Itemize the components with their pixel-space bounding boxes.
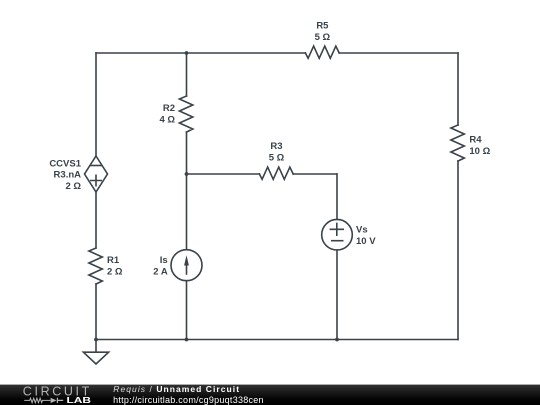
svg-text:R1: R1: [107, 255, 120, 266]
wire Is branch lower: [186, 281, 188, 340]
svg-text:Is: Is: [160, 255, 168, 266]
svg-text:Vs: Vs: [356, 224, 368, 235]
wire right vertical lower: [457, 161, 459, 340]
wire left vertical middle: [95, 192, 97, 248]
wire R3 left: [187, 173, 260, 175]
resistor R1: [89, 248, 102, 284]
current source Is: [171, 250, 202, 281]
Vs minus sign: [332, 240, 343, 242]
svg-text:LAB: LAB: [67, 396, 92, 405]
junction mid R2-R3: [185, 172, 189, 176]
svg-text:4 Ω: 4 Ω: [159, 115, 175, 126]
svg-text:10 V: 10 V: [356, 236, 376, 247]
svg-text:CCVS1: CCVS1: [49, 159, 81, 170]
svg-text:5 Ω: 5 Ω: [315, 32, 331, 43]
svg-text:10 Ω: 10 Ω: [469, 146, 490, 157]
footer bar: [0, 385, 540, 405]
svg-text:R5: R5: [316, 21, 329, 32]
svg-text:R4: R4: [469, 135, 482, 146]
svg-text:2 Ω: 2 Ω: [107, 267, 123, 278]
svg-text:http://circuitlab.com/cg9puqt3: http://circuitlab.com/cg9puqt338cen: [113, 395, 264, 405]
ground: [83, 352, 108, 364]
Is arrow: [184, 255, 189, 274]
logo zigzag wire: [24, 398, 50, 402]
wire top-right horizontal: [339, 52, 458, 54]
CCVS1 plus sign: [91, 175, 101, 185]
junction top R2: [185, 51, 189, 55]
svg-text:Requis / Unnamed Circuit: Requis / Unnamed Circuit: [113, 384, 240, 394]
svg-text:2 Ω: 2 Ω: [65, 181, 81, 192]
wire Is branch upper: [186, 174, 188, 250]
junction bottom left: [94, 338, 98, 342]
resistor R5: [305, 46, 339, 58]
svg-text:R2: R2: [163, 103, 175, 114]
wire R2 branch upper: [186, 53, 188, 96]
wire left vertical upper: [95, 53, 97, 156]
svg-text:R3.nA: R3.nA: [54, 170, 82, 181]
wire R2 branch lower: [186, 132, 188, 174]
CCVS CCVS1: [85, 156, 108, 192]
wire right vertical upper: [457, 53, 459, 125]
wire Vs branch upper: [336, 174, 338, 219]
voltage source Vs: [322, 219, 353, 250]
wire top-left horizontal: [96, 52, 305, 54]
wire Vs branch lower: [336, 250, 338, 340]
wire left vertical lower: [95, 284, 97, 340]
Vs plus sign: [330, 223, 343, 235]
resistor R3: [259, 167, 293, 179]
CCVS1 minus sign: [91, 165, 101, 167]
resistor R4: [451, 125, 464, 161]
svg-text:R3: R3: [270, 141, 282, 152]
svg-text:2 A: 2 A: [153, 267, 168, 278]
logo diode: [51, 398, 64, 403]
wire ground stub: [95, 340, 97, 353]
resistor R2: [179, 96, 192, 132]
wire R3 right: [293, 173, 337, 175]
junction bottom Vs: [335, 338, 339, 342]
svg-text:5 Ω: 5 Ω: [269, 153, 285, 164]
wire bottom horizontal: [96, 339, 458, 341]
junction bottom Is: [185, 338, 189, 342]
